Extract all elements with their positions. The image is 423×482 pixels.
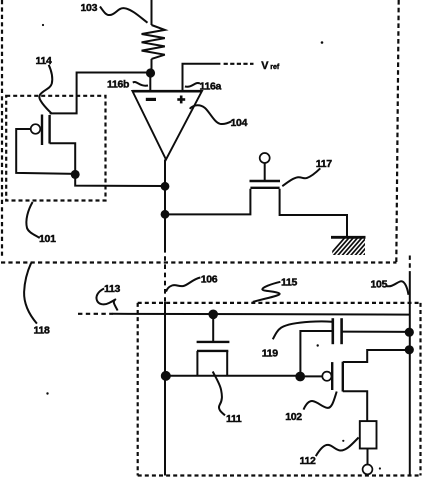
svg-text:104: 104: [231, 117, 248, 129]
svg-text:115: 115: [281, 277, 297, 289]
svg-text:V: V: [261, 60, 269, 72]
svg-text:114: 114: [36, 55, 52, 67]
svg-text:101: 101: [39, 233, 56, 245]
svg-text:116a: 116a: [200, 81, 222, 93]
svg-text:ref: ref: [270, 64, 280, 71]
svg-text:118: 118: [34, 325, 50, 337]
svg-text:102: 102: [285, 411, 302, 423]
svg-text:105: 105: [371, 279, 388, 291]
svg-text:106: 106: [201, 274, 218, 286]
svg-text:112: 112: [300, 455, 316, 467]
svg-text:116b: 116b: [107, 79, 129, 91]
svg-text:111: 111: [226, 413, 242, 425]
svg-text:113: 113: [104, 283, 120, 295]
svg-text:119: 119: [262, 347, 278, 359]
svg-text:117: 117: [316, 158, 332, 170]
svg-text:103: 103: [81, 2, 98, 14]
